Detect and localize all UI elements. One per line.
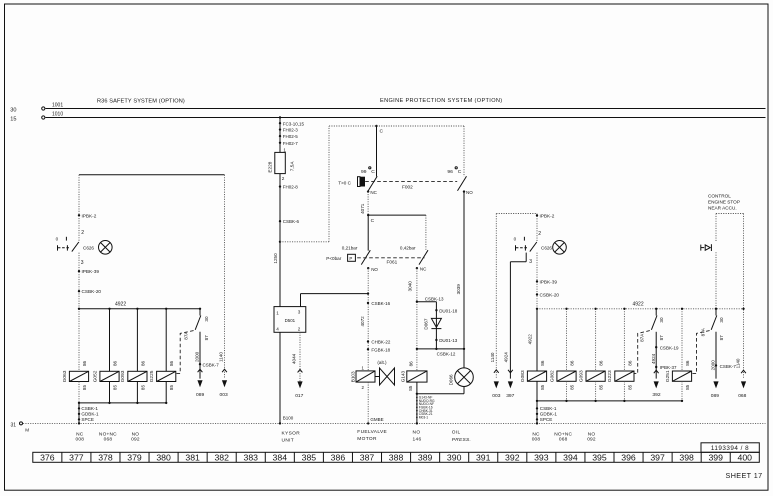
- svg-text:CSBK-7: CSBK-7: [720, 364, 737, 369]
- svg-text:G083: G083: [520, 370, 526, 382]
- svg-text:G093: G093: [578, 370, 584, 382]
- svg-text:30: 30: [204, 316, 209, 322]
- svg-text:IPBK-37: IPBK-37: [660, 365, 677, 370]
- svg-text:C: C: [380, 128, 384, 134]
- svg-text:GMBE: GMBE: [370, 417, 383, 422]
- svg-text:1140: 1140: [218, 352, 223, 362]
- svg-text:IPBK-39: IPBK-39: [82, 269, 100, 274]
- svg-text:CSBK-20: CSBK-20: [82, 289, 102, 294]
- svg-text:399: 399: [708, 453, 723, 463]
- svg-text:M03-1: M03-1: [419, 415, 429, 419]
- svg-text:1: 1: [283, 147, 286, 152]
- svg-text:UNIT: UNIT: [282, 437, 295, 443]
- svg-text:3039: 3039: [456, 284, 461, 295]
- svg-text:4071: 4071: [360, 203, 365, 214]
- svg-text:D501: D501: [285, 318, 296, 323]
- svg-text:NO: NO: [371, 267, 378, 272]
- svg-text:86: 86: [685, 360, 690, 366]
- svg-text:86: 86: [112, 360, 117, 366]
- svg-text:4: 4: [276, 326, 279, 331]
- svg-text:30: 30: [10, 107, 16, 113]
- svg-text:068: 068: [738, 393, 746, 399]
- svg-text:384: 384: [273, 453, 288, 463]
- svg-text:G063: G063: [62, 370, 68, 382]
- svg-text:NO: NO: [132, 431, 140, 437]
- svg-text:P<0bar: P<0bar: [326, 256, 341, 261]
- svg-text:4922: 4922: [528, 334, 533, 345]
- svg-text:3040: 3040: [407, 281, 412, 292]
- svg-text:PRESS.: PRESS.: [452, 437, 471, 443]
- svg-text:P: P: [349, 256, 352, 261]
- svg-text:IPBK-39: IPBK-39: [540, 280, 558, 285]
- svg-text:FUELVALVE: FUELVALVE: [357, 429, 387, 435]
- svg-text:3: 3: [298, 309, 301, 314]
- svg-text:96: 96: [447, 169, 453, 175]
- svg-text:85: 85: [569, 384, 574, 390]
- svg-text:ENGINE STOP: ENGINE STOP: [708, 200, 740, 205]
- svg-text:391: 391: [476, 453, 491, 463]
- svg-text:T>0 C: T>0 C: [338, 180, 351, 185]
- svg-text:CSBK-6: CSBK-6: [283, 219, 300, 224]
- svg-text:2: 2: [81, 230, 84, 236]
- svg-text:395: 395: [592, 453, 607, 463]
- svg-text:FH02-3: FH02-3: [283, 128, 299, 133]
- svg-text:IPBK-2: IPBK-2: [540, 213, 555, 218]
- svg-text:017: 017: [295, 393, 303, 399]
- svg-text:382: 382: [214, 453, 229, 463]
- svg-text:86: 86: [169, 360, 174, 366]
- svg-text:D066: D066: [449, 374, 454, 385]
- svg-text:30: 30: [719, 317, 724, 323]
- svg-text:KYSOR: KYSOR: [282, 430, 301, 436]
- svg-text:F002: F002: [402, 184, 413, 189]
- svg-text:003: 003: [492, 393, 500, 399]
- svg-text:397: 397: [650, 453, 665, 463]
- svg-text:B103: B103: [350, 371, 355, 382]
- svg-text:C626: C626: [83, 245, 94, 250]
- svg-text:86: 86: [627, 360, 632, 366]
- svg-text:NO+NC: NO+NC: [99, 431, 117, 437]
- svg-text:4922: 4922: [115, 302, 126, 308]
- svg-text:2: 2: [538, 231, 541, 237]
- svg-text:G143: G143: [401, 370, 406, 382]
- svg-text:NC: NC: [420, 267, 427, 272]
- svg-text:392: 392: [652, 392, 660, 398]
- svg-text:089: 089: [196, 392, 204, 398]
- svg-text:G082: G082: [549, 370, 555, 382]
- svg-text:393: 393: [534, 453, 549, 463]
- svg-text:G251: G251: [665, 370, 671, 382]
- svg-text:ENGINE PROTECTION SYSTEM (OPTI: ENGINE PROTECTION SYSTEM (OPTION): [380, 98, 503, 104]
- svg-text:M: M: [25, 428, 29, 433]
- svg-text:FH02-8: FH02-8: [283, 185, 299, 190]
- svg-text:DU01-18: DU01-18: [439, 308, 458, 313]
- svg-text:86: 86: [599, 360, 604, 366]
- svg-text:G225: G225: [149, 370, 155, 382]
- svg-text:7,5A: 7,5A: [290, 161, 295, 172]
- svg-text:CSBK-1: CSBK-1: [540, 406, 557, 411]
- svg-text:CSBK-7: CSBK-7: [203, 363, 220, 368]
- svg-text:4922: 4922: [633, 301, 644, 307]
- svg-text:G223: G223: [607, 370, 613, 382]
- svg-text:DU01-13: DU01-13: [439, 338, 458, 343]
- svg-text:4924: 4924: [504, 352, 509, 363]
- svg-text:86: 86: [140, 360, 145, 366]
- svg-text:SPCE: SPCE: [540, 417, 553, 422]
- svg-text:FH02-5: FH02-5: [283, 134, 299, 139]
- svg-text:85: 85: [112, 385, 117, 391]
- svg-text:NC: NC: [532, 431, 540, 437]
- svg-text:400: 400: [738, 453, 753, 463]
- svg-text:NO: NO: [413, 429, 421, 435]
- svg-text:30: 30: [659, 317, 664, 323]
- svg-text:1140: 1140: [490, 352, 495, 362]
- svg-text:SHEET 17: SHEET 17: [726, 471, 763, 480]
- svg-text:0,42bar: 0,42bar: [400, 245, 416, 250]
- svg-text:15: 15: [10, 116, 16, 122]
- svg-text:1250: 1250: [273, 253, 278, 264]
- svg-text:389: 389: [418, 453, 433, 463]
- svg-text:85: 85: [408, 385, 413, 391]
- svg-text:0,21bar: 0,21bar: [342, 245, 358, 250]
- svg-text:4072: 4072: [360, 316, 365, 327]
- svg-text:85: 85: [685, 384, 690, 390]
- svg-text:3: 3: [81, 260, 84, 266]
- svg-text:FC3-10,15: FC3-10,15: [283, 121, 305, 126]
- svg-text:1: 1: [276, 311, 279, 316]
- svg-text:R36 SAFETY SYSTEM (OPTION): R36 SAFETY SYSTEM (OPTION): [97, 99, 185, 105]
- svg-text:386: 386: [331, 453, 346, 463]
- svg-text:377: 377: [69, 453, 84, 463]
- svg-text:C: C: [458, 169, 462, 175]
- svg-text:CONTROL: CONTROL: [708, 193, 731, 198]
- svg-text:86: 86: [408, 361, 413, 367]
- svg-text:397: 397: [506, 393, 514, 399]
- svg-text:1001: 1001: [52, 102, 63, 108]
- svg-text:CSBK-16: CSBK-16: [371, 301, 390, 306]
- svg-text:31: 31: [10, 422, 16, 428]
- svg-text:D067: D067: [424, 318, 429, 329]
- svg-text:3: 3: [529, 259, 532, 265]
- svg-text:E228: E228: [267, 161, 272, 172]
- svg-text:2: 2: [298, 326, 301, 331]
- svg-text:008: 008: [75, 437, 84, 443]
- svg-text:85: 85: [140, 385, 145, 391]
- svg-text:089: 089: [711, 393, 719, 399]
- svg-text:394: 394: [563, 453, 578, 463]
- svg-text:1010: 1010: [52, 111, 63, 117]
- svg-text:381: 381: [185, 453, 200, 463]
- svg-text:2000: 2000: [194, 351, 199, 362]
- svg-text:392: 392: [505, 453, 520, 463]
- svg-text:388: 388: [389, 453, 404, 463]
- svg-text:376: 376: [40, 453, 55, 463]
- svg-text:092: 092: [587, 437, 596, 443]
- svg-text:396: 396: [621, 453, 636, 463]
- svg-text:NO: NO: [466, 190, 473, 195]
- svg-text:4044: 4044: [291, 353, 296, 364]
- svg-text:FH02-7: FH02-7: [283, 141, 299, 146]
- svg-text:NC: NC: [76, 431, 84, 437]
- svg-text:87A: 87A: [639, 333, 644, 342]
- svg-text:CSBK-20: CSBK-20: [540, 293, 560, 298]
- svg-text:2: 2: [282, 176, 285, 181]
- svg-text:068: 068: [559, 437, 568, 443]
- svg-text:008: 008: [532, 437, 541, 443]
- svg-text:CHBK-22: CHBK-22: [371, 340, 391, 345]
- svg-text:378: 378: [98, 453, 113, 463]
- svg-text:87: 87: [659, 335, 664, 341]
- svg-text:B100: B100: [283, 415, 294, 420]
- svg-text:CSBK-12: CSBK-12: [437, 352, 456, 357]
- svg-text:G052: G052: [92, 370, 98, 382]
- svg-text:GDBK-1: GDBK-1: [81, 412, 99, 417]
- svg-text:1193394 / 8: 1193394 / 8: [711, 445, 749, 452]
- svg-text:C: C: [371, 169, 375, 175]
- svg-text:F061: F061: [387, 259, 398, 264]
- svg-text:OIL: OIL: [452, 429, 461, 435]
- svg-text:NO: NO: [588, 431, 596, 437]
- svg-text:CSBK-13: CSBK-13: [425, 296, 444, 301]
- svg-text:CSBK-19: CSBK-19: [660, 345, 679, 350]
- svg-text:(alt.): (alt.): [377, 360, 387, 365]
- svg-text:NEAR ACCU.: NEAR ACCU.: [708, 206, 737, 211]
- svg-text:87: 87: [719, 335, 724, 341]
- svg-text:GDBK-1: GDBK-1: [540, 412, 558, 417]
- svg-text:398: 398: [679, 453, 694, 463]
- svg-text:385: 385: [302, 453, 317, 463]
- svg-text:85: 85: [540, 384, 545, 390]
- svg-text:146: 146: [413, 437, 422, 443]
- svg-text:1140: 1140: [736, 358, 741, 368]
- svg-text:99: 99: [361, 169, 367, 175]
- svg-text:380: 380: [156, 453, 171, 463]
- svg-text:C: C: [371, 218, 375, 224]
- svg-text:86: 86: [540, 360, 545, 366]
- svg-text:85: 85: [627, 384, 632, 390]
- svg-text:SPCE: SPCE: [81, 417, 94, 422]
- svg-text:CSBK-1: CSBK-1: [81, 406, 98, 411]
- svg-text:0: 0: [514, 237, 517, 242]
- svg-text:0: 0: [56, 237, 59, 242]
- svg-text:FGBK-18: FGBK-18: [371, 347, 390, 352]
- svg-text:IPBK-2: IPBK-2: [82, 213, 97, 218]
- svg-text:383: 383: [244, 453, 259, 463]
- svg-text:379: 379: [127, 453, 142, 463]
- svg-text:G093: G093: [120, 370, 126, 382]
- svg-text:068: 068: [104, 437, 113, 443]
- svg-text:390: 390: [447, 453, 462, 463]
- svg-text:86: 86: [82, 360, 87, 366]
- svg-text:387: 387: [360, 453, 375, 463]
- svg-text:86: 86: [569, 360, 574, 366]
- svg-text:85: 85: [599, 384, 604, 390]
- svg-text:003: 003: [220, 392, 228, 398]
- svg-text:NC: NC: [370, 190, 377, 195]
- svg-text:4924: 4924: [651, 353, 656, 364]
- svg-text:C626: C626: [541, 245, 552, 250]
- svg-text:NO+NC: NO+NC: [554, 431, 572, 437]
- svg-text:092: 092: [131, 437, 140, 443]
- svg-text:87: 87: [204, 335, 209, 341]
- svg-text:MOTOR: MOTOR: [357, 436, 377, 442]
- svg-text:85: 85: [169, 385, 174, 391]
- svg-text:85: 85: [82, 385, 87, 391]
